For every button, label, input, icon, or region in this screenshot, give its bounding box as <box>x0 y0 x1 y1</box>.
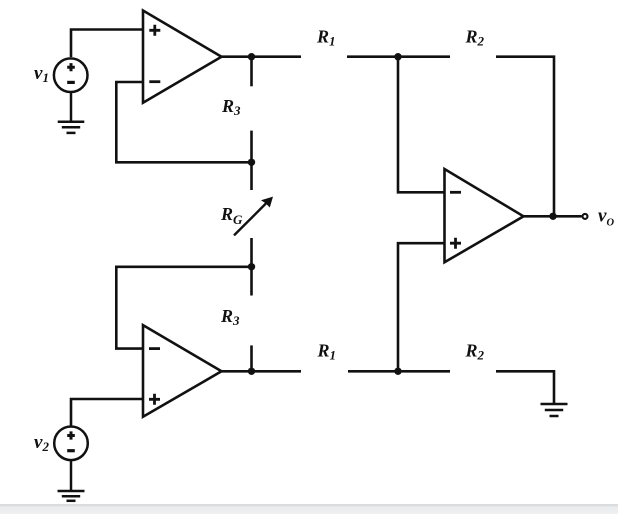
wire U2 + input from v2 <box>71 399 143 426</box>
wire v1 to U1 + input <box>71 30 143 58</box>
svg-text:v2: v2 <box>34 432 49 454</box>
wire R3 bottom stub lower <box>250 345 253 371</box>
op-amp U1 <box>143 11 222 103</box>
svg-text:R1: R1 <box>316 27 336 49</box>
wire U1 output <box>222 55 302 58</box>
svg-text:v1: v1 <box>34 63 49 85</box>
wire R1 top right segment <box>347 55 450 58</box>
svg-text:R1: R1 <box>317 341 337 363</box>
svg-text:R2: R2 <box>465 27 485 49</box>
bottom gray strip <box>0 504 618 514</box>
wire U3 + input <box>398 243 445 371</box>
node feedback A <box>248 159 255 166</box>
wire R2 bottom to ground <box>496 371 554 404</box>
wire R1 bottom right segment <box>348 370 450 373</box>
wire U3 - input <box>398 57 445 193</box>
wire RG stub upper <box>250 162 253 190</box>
svg-text:R2: R2 <box>465 341 485 363</box>
wire R2 top to output <box>496 57 554 217</box>
terminal vO <box>583 214 588 219</box>
arrow RG variable <box>234 197 273 236</box>
svg-text:RG: RG <box>220 204 243 227</box>
wire U2 - input feedback <box>116 267 251 349</box>
op-amp U2 <box>143 325 222 417</box>
wire R3 top stub lower <box>250 131 253 163</box>
ground right <box>541 404 568 416</box>
wire U1 - input feedback <box>116 82 251 162</box>
op-amp U3 <box>445 169 524 262</box>
wire U2 output <box>222 370 302 373</box>
wire U3 output <box>524 215 582 218</box>
svg-text:R3: R3 <box>221 96 241 118</box>
source v1 <box>54 58 88 92</box>
svg-text:vO: vO <box>598 206 614 229</box>
node U3 + branch <box>394 368 401 375</box>
ground under v1 <box>58 92 85 133</box>
node U2 output <box>248 368 255 375</box>
wire RG stub lower <box>250 238 253 267</box>
node U3 output <box>549 213 556 220</box>
node U3 - branch <box>394 53 401 60</box>
source v2 <box>54 427 88 461</box>
wire R3 bottom stub upper <box>250 267 253 296</box>
ground under v2 <box>58 461 85 501</box>
node feedback B <box>248 263 255 270</box>
svg-text:R3: R3 <box>220 306 240 328</box>
node U1 output <box>248 53 255 60</box>
wire R3 top stub upper <box>250 57 253 87</box>
